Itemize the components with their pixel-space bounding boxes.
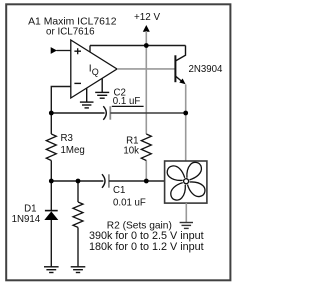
wire +12V stem bbox=[145, 31, 147, 46]
wire fan top lead bbox=[185, 113, 187, 161]
svg-text:+12 V: +12 V bbox=[134, 12, 160, 23]
wire R2 bottom lead bbox=[77, 227, 79, 266]
fan blades bbox=[166, 161, 205, 200]
border frame bbox=[6, 4, 230, 280]
svg-text:D1: D1 bbox=[24, 203, 36, 214]
svg-text:or ICL7616: or ICL7616 bbox=[46, 26, 95, 37]
wire op-amp V+ stub bbox=[89, 46, 91, 53]
svg-text:180k for 0 to 1.2 V input: 180k for 0 to 1.2 V input bbox=[89, 241, 204, 253]
wire top collector rail bbox=[90, 45, 186, 47]
op-amp plus sign bbox=[74, 48, 81, 54]
wire D1 top lead bbox=[50, 181, 52, 211]
svg-text:R3: R3 bbox=[61, 133, 73, 144]
C2 curved plate bbox=[103, 106, 106, 120]
wire R3 bottom lead bbox=[50, 161, 52, 182]
svg-text:1N914: 1N914 bbox=[12, 214, 41, 225]
wire +12V rail down to R1 bbox=[145, 46, 147, 135]
input arrow bbox=[51, 47, 57, 54]
+12V arrow bbox=[143, 25, 150, 32]
wire C1 right bbox=[109, 180, 165, 182]
ground op-amp V- bbox=[80, 88, 94, 108]
wire R1 bottom lead bbox=[145, 161, 147, 182]
svg-text:C1: C1 bbox=[113, 185, 125, 196]
op-amp minus sign bbox=[74, 82, 81, 84]
svg-text:10k: 10k bbox=[123, 146, 139, 157]
svg-text:0.01 uF: 0.01 uF bbox=[113, 197, 146, 208]
transistor emitter lead bbox=[175, 76, 182, 81]
wire input to + bbox=[57, 50, 71, 52]
op-amp U1 triangle bbox=[71, 40, 117, 98]
ground op-amp IQ pin bbox=[95, 78, 109, 98]
C2 straight plate bbox=[109, 106, 111, 119]
ground D1 bbox=[44, 267, 59, 273]
node junction +12V/collector bbox=[144, 43, 149, 48]
svg-text:1Meg: 1Meg bbox=[61, 145, 85, 156]
wire R2 top lead bbox=[77, 181, 79, 202]
wire - input bbox=[51, 87, 71, 114]
wire op-amp output bbox=[117, 68, 175, 70]
node junction emitter/C2 bbox=[183, 111, 188, 116]
wire C2 right bbox=[110, 112, 185, 114]
C1 curved plate bbox=[102, 174, 105, 188]
svg-text:0.1 uF: 0.1 uF bbox=[113, 96, 141, 107]
wire R3 top lead bbox=[50, 113, 52, 134]
resistor R2 bbox=[73, 202, 83, 227]
wire C1 line bbox=[51, 180, 103, 182]
wire emitter down bbox=[185, 84, 187, 113]
C1 straight plate bbox=[108, 174, 110, 187]
node junction R2 bbox=[76, 179, 81, 184]
svg-text:Q: Q bbox=[92, 67, 99, 77]
wire D1 bottom lead bbox=[50, 220, 52, 266]
transistor collector lead bbox=[176, 46, 186, 61]
wire C2 left bbox=[51, 112, 104, 114]
node junction D1 bbox=[49, 179, 54, 184]
ground R2 bbox=[71, 267, 86, 273]
transistor base bar bbox=[174, 55, 176, 82]
fan M1 box bbox=[165, 161, 207, 203]
node junction R1/C1 bbox=[144, 179, 149, 184]
svg-text:2N3904: 2N3904 bbox=[189, 64, 224, 75]
ground fan bbox=[185, 203, 187, 222]
node junction C2 left bbox=[49, 111, 54, 116]
